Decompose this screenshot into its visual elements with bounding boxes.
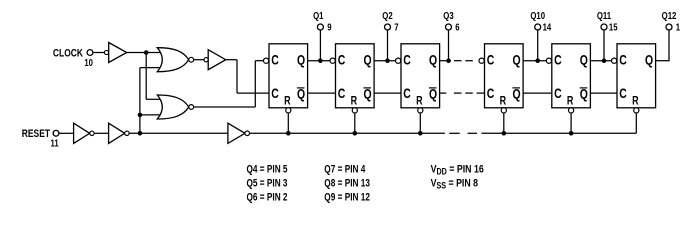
node Q3 junction [446,58,451,63]
R input bubble FF5 [569,108,574,113]
buffer U2 (input bubble) [208,50,226,70]
NOR gate G2 [157,95,188,119]
junction reset bus FF3 [418,131,423,136]
wire Qbar FF4 to lower C FF5 [523,92,552,94]
svg-text:CLOCK: CLOCK [53,47,83,59]
svg-text:7: 7 [394,22,398,33]
wire RESET terminal to inverter U3 [59,132,74,134]
junction reset bus FF2 [353,131,358,136]
svg-text:Q2: Q2 [382,10,392,21]
wire R of FF4 to reset bus [503,113,505,133]
node Q1 junction [318,58,323,63]
C input bubble FF5 [546,58,551,63]
output terminal Q2, pin 7 [385,24,391,30]
C input bubble FF1 [264,58,269,63]
wire G1 output to buffer U2 [194,59,204,61]
svg-text:Q: Q [580,86,588,102]
node RST junction [138,131,143,136]
flip-flop FF2 [336,44,375,108]
wire Q3 to FF4 (dashed) [440,60,451,62]
svg-text:R: R [416,95,423,107]
wire node to Q11 terminal [603,30,605,61]
svg-text:C: C [338,86,346,102]
svg-text:R: R [567,95,574,107]
svg-text:C: C [271,52,279,68]
svg-text:9: 9 [327,22,331,33]
C input bubble FF6 [612,58,617,63]
svg-text:Q11: Q11 [597,10,611,21]
output terminal Q12, pin 1 [666,24,672,30]
output terminal Q1, pin 9 [317,24,323,30]
svg-text:Q8 = PIN 13: Q8 = PIN 13 [324,177,370,189]
wire Q of FF4 to C of FF5 [523,60,546,62]
inverter U1 (clock shaper, input bubble) [109,43,127,63]
NOR gate G1 [157,48,188,72]
svg-text:Q: Q [513,52,521,68]
svg-text:R: R [284,95,291,107]
inverter U4 [109,123,125,143]
svg-text:Q: Q [297,86,305,102]
R input bubble FF4 [501,108,506,113]
svg-text:R: R [500,95,507,107]
svg-text:RESET: RESET [22,128,50,140]
wire node to Q2 terminal [387,30,389,61]
flip-flop FF6 [617,44,656,108]
svg-text:Q4 = PIN 5: Q4 = PIN 5 [247,163,289,175]
C input bubble FF2 [330,58,335,63]
svg-text:C: C [338,52,346,68]
node Q11 junction [602,58,607,63]
svg-text:Q: Q [429,86,437,102]
svg-text:14: 14 [543,22,552,33]
wire Q of FF2 to C of FF3 [374,60,396,62]
svg-text:10: 10 [84,57,93,68]
inverter U3 [74,123,90,143]
svg-text:C: C [403,52,411,68]
svg-text:C: C [487,52,495,68]
junction RST to NOR G2 lower input [138,113,143,118]
node Q10 junction [535,58,540,63]
C input bubble FF4 [479,58,484,63]
svg-text:Q12: Q12 [662,10,677,21]
R input bubble FF2 [352,108,357,113]
svg-text:VDD = PIN 16: VDD = PIN 16 [431,163,485,176]
wire node to Q3 terminal [448,30,450,61]
wire U1 output to NOR gate G1 top input [127,52,161,54]
wire U3 to inverter U4 [94,132,109,134]
wire Q of FF6 up to Q12 terminal [656,60,669,62]
svg-text:Q: Q [513,86,521,102]
svg-text:Q: Q [580,52,588,68]
wire RST node up to NOR inputs [139,68,141,134]
svg-text:Q3: Q3 [443,10,453,21]
svg-text:C: C [554,86,562,102]
R input bubble FF6 [634,108,639,113]
wire Qbar FF2 to lower C FF3 [374,92,401,94]
flip-flop FF5 [552,44,591,108]
wire R of FF2 to reset bus [354,113,356,133]
svg-text:Q5 = PIN 3: Q5 = PIN 3 [247,177,289,189]
flip-flop FF4 [485,44,524,108]
wire CLK node down to NOR G2 top input [145,53,147,100]
svg-text:Q10: Q10 [530,10,545,21]
svg-text:Q: Q [429,52,437,68]
svg-text:Q: Q [364,86,372,102]
inverter U5 (reset buffer) [228,123,245,143]
wire R of FF3 to reset bus [419,113,421,133]
flip-flop FF3 [401,44,440,108]
wire node to Q10 terminal [537,30,539,61]
svg-text:Q1: Q1 [313,10,323,21]
svg-text:Q7 = PIN 4: Q7 = PIN 4 [324,163,366,175]
wire Qbar FF5 to lower C FF6 [590,92,617,94]
wire CLOCK terminal to inverter U1 [93,52,105,54]
svg-text:C: C [487,86,495,102]
svg-text:15: 15 [609,22,618,33]
wire Qbar FF1 to lower C FF2 [308,92,336,94]
wire Q of FF1 to C of FF2 [308,60,331,62]
junction reset bus FF1 [286,131,291,136]
svg-text:Q: Q [297,52,305,68]
svg-text:C: C [619,52,627,68]
svg-text:Q6 = PIN 2: Q6 = PIN 2 [247,191,289,203]
wire R of FF5 to reset bus [570,113,572,133]
wire Qbar FF3 to lower C FF4 (dashed) [440,92,447,94]
reset bus from U5 to all R inputs (dashed mid-section) [250,132,445,134]
R input bubble FF3 [418,108,423,113]
svg-text:C: C [554,52,562,68]
R input bubble FF1 [286,108,291,113]
node CLK junction [144,50,149,55]
wire U4 output to inverter U5 [129,132,228,134]
output terminal Q10, pin 14 [535,24,541,30]
svg-text:Q: Q [645,52,653,68]
C input bubble FF3 [396,58,401,63]
node Q2 junction [385,58,390,63]
output terminal Q3, pin 6 [446,24,452,30]
svg-text:C: C [403,86,411,102]
svg-text:R: R [632,95,639,107]
wire Q of FF5 to C of FF6 [590,60,611,62]
wire G2 output to FF1 inverted C input [194,106,256,108]
svg-text:11: 11 [51,138,59,149]
svg-text:Q: Q [364,52,372,68]
svg-text:VSS = PIN 8: VSS = PIN 8 [431,177,479,190]
junction reset bus FF4 [502,131,507,136]
svg-text:1: 1 [676,22,680,33]
svg-text:C: C [271,86,279,102]
wire R of FF1 to reset bus [287,113,289,133]
flip-flop FF1 [269,44,308,108]
svg-text:Q9 = PIN 12: Q9 = PIN 12 [324,191,370,203]
wire node to Q1 terminal [319,30,321,61]
svg-text:C: C [619,86,627,102]
wire U2 output to FF1 lower C input [226,59,237,61]
svg-text:6: 6 [455,22,459,33]
junction reset bus FF5 [569,131,574,136]
output terminal Q11, pin 15 [601,24,607,30]
svg-text:R: R [351,95,358,107]
